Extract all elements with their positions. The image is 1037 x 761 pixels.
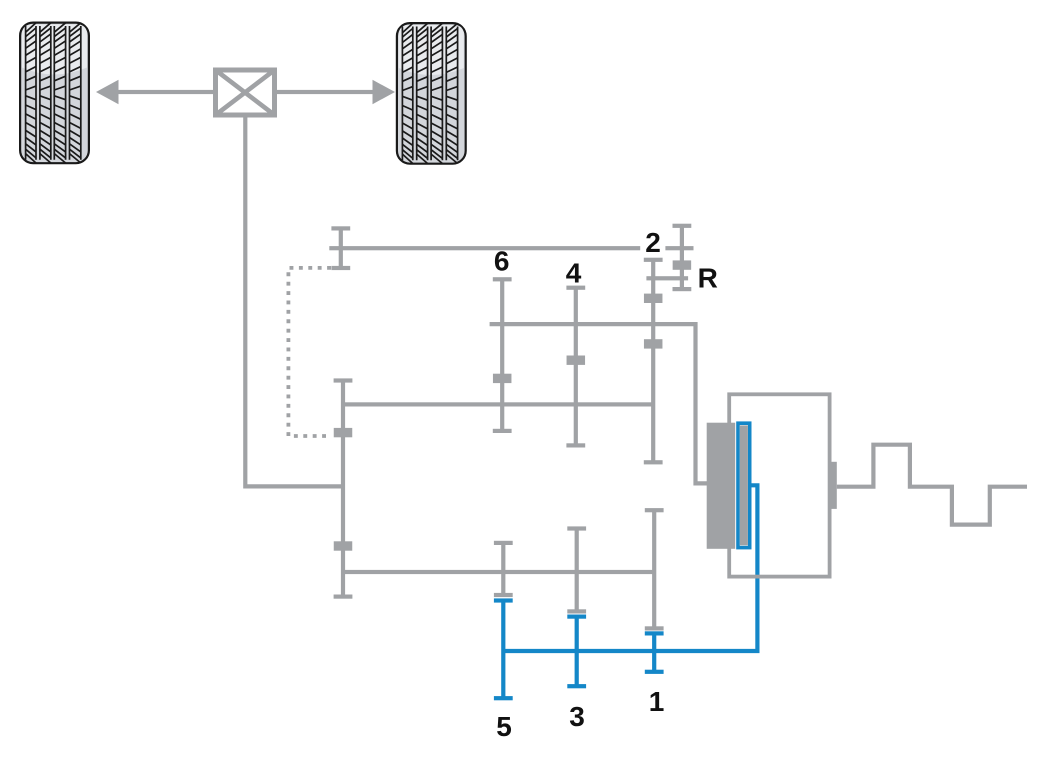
gear 5 drive (blue) <box>494 598 513 700</box>
svg-text:R: R <box>698 263 718 294</box>
label 6 <box>494 246 510 277</box>
gear 1 driven (gray) <box>645 508 664 630</box>
left axle arrow <box>96 80 216 104</box>
engine crankshaft <box>837 445 1027 525</box>
gear 6 <box>493 277 512 433</box>
svg-text:2: 2 <box>645 227 661 258</box>
svg-text:4: 4 <box>566 258 582 289</box>
main shaft <box>343 402 653 406</box>
dotted linkage <box>288 268 331 436</box>
right tire <box>397 23 466 164</box>
gear 1 drive (blue) <box>645 631 664 674</box>
svg-text:6: 6 <box>494 246 510 277</box>
svg-text:1: 1 <box>649 686 665 717</box>
reverse idler gear R <box>665 224 693 292</box>
clutch housing <box>729 394 829 576</box>
gear 2 <box>644 258 663 465</box>
right axle arrow <box>275 80 396 104</box>
label 1 <box>649 686 665 717</box>
engaged input shaft (blue) <box>503 485 757 651</box>
gear 5 driven (gray) <box>494 541 513 597</box>
label 2 <box>645 227 661 258</box>
gear R link <box>646 276 688 280</box>
gear 3 drive (blue) <box>567 615 586 689</box>
lower output shaft <box>343 570 654 574</box>
pinion on upper shaft <box>331 226 350 270</box>
label 4 <box>566 258 582 289</box>
svg-text:5: 5 <box>496 711 512 742</box>
clutch plate pack <box>707 423 736 549</box>
flywheel hub <box>831 462 836 509</box>
left tire <box>20 23 89 164</box>
final drive gear <box>334 378 353 598</box>
input shaft upper (to clutch) <box>490 324 708 483</box>
upper output shaft <box>329 246 640 250</box>
svg-text:3: 3 <box>569 701 585 732</box>
label 3 <box>569 701 585 732</box>
gear 4 <box>566 286 585 448</box>
engaged clutch disc (blue) <box>738 423 750 547</box>
differential <box>216 70 275 115</box>
driveshaft from differential <box>245 115 343 486</box>
label R <box>698 263 718 294</box>
label 5 <box>496 711 512 742</box>
gear 3 driven (gray) <box>567 526 586 613</box>
